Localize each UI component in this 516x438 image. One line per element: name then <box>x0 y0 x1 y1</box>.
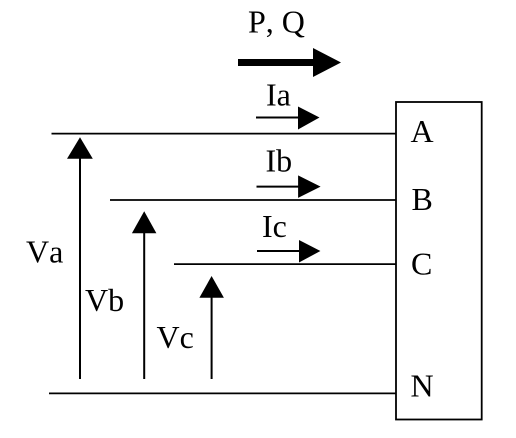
svg-text:B: B <box>412 181 433 217</box>
svg-text:A: A <box>411 113 434 149</box>
svg-text:N: N <box>411 368 434 404</box>
svg-text:Ic: Ic <box>262 208 287 244</box>
svg-text:Vc: Vc <box>157 319 194 355</box>
svg-text:Va: Va <box>26 234 63 270</box>
svg-text:P, Q: P, Q <box>248 4 305 40</box>
svg-text:Ia: Ia <box>266 77 291 113</box>
svg-text:Ib: Ib <box>266 142 293 178</box>
svg-text:Vb: Vb <box>85 282 124 318</box>
svg-text:C: C <box>411 246 432 282</box>
